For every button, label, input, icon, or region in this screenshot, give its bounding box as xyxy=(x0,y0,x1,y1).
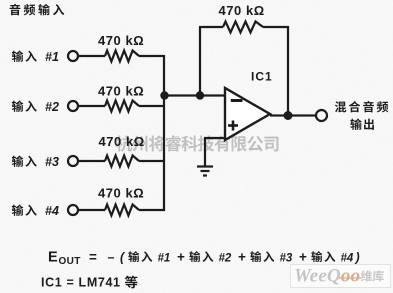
svg-text:#1: #1 xyxy=(158,253,171,265)
svg-text:+: + xyxy=(238,250,246,265)
svg-text:WeeQoo: WeeQoo xyxy=(294,266,360,287)
svg-text:#3: #3 xyxy=(280,253,293,265)
svg-text:–: – xyxy=(108,251,115,265)
svg-text:IC1: IC1 xyxy=(251,70,273,84)
svg-text:=: = xyxy=(89,250,97,265)
svg-text:470 kΩ: 470 kΩ xyxy=(98,84,144,99)
svg-text:470 kΩ: 470 kΩ xyxy=(99,134,145,149)
svg-text:#2: #2 xyxy=(45,100,59,114)
svg-text:OUT: OUT xyxy=(59,256,81,267)
svg-text:470 kΩ: 470 kΩ xyxy=(98,186,144,201)
svg-text:E: E xyxy=(48,250,58,266)
svg-text:+: + xyxy=(177,250,185,265)
svg-text:#4: #4 xyxy=(45,204,59,218)
svg-text:#1: #1 xyxy=(45,50,59,64)
svg-text:470 kΩ: 470 kΩ xyxy=(219,3,265,18)
svg-text:+: + xyxy=(299,250,307,265)
svg-text:#4: #4 xyxy=(341,253,354,265)
svg-text:#3: #3 xyxy=(45,155,59,169)
svg-text:IC1 = LM741: IC1 = LM741 xyxy=(41,276,120,290)
svg-text:470 kΩ: 470 kΩ xyxy=(98,33,144,48)
svg-text:#2: #2 xyxy=(219,253,232,265)
